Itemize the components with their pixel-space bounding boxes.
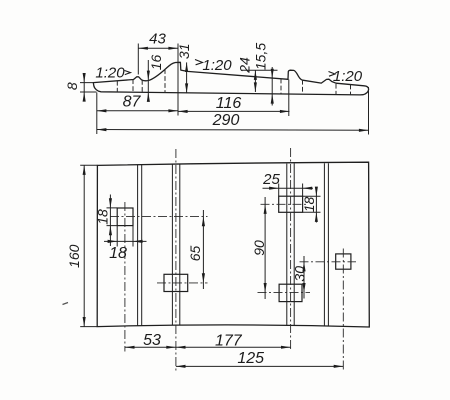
arrowheads: dimension 16 (147, 71, 150, 81)
arrowheads: dimension 90 (264, 204, 267, 214)
svg-text:24: 24 (236, 57, 252, 74)
square hole 1 (18x18, left) (117, 208, 133, 226)
dimension 31: dimension line (186, 62, 188, 93)
svg-text:8: 8 (64, 82, 80, 90)
hidden edges of holes (dashed) in section view (117, 70, 350, 95)
dimension 8: extension lines (80, 83, 97, 92)
arrowheads: dimension 65 (202, 217, 205, 227)
dimension 290: dimension line (97, 129, 369, 132)
arrowheads: dimension 8 (83, 73, 86, 83)
square hole 5 (18x18, right) (336, 254, 351, 269)
svg-text:116: 116 (216, 95, 242, 112)
svg-text:30: 30 (291, 266, 307, 282)
dimension 43: dimension line (138, 47, 178, 49)
dimensions 53 and 177: dimension lines (125, 346, 291, 348)
svg-text:160: 160 (66, 244, 82, 268)
svg-text:1:20: 1:20 (333, 68, 363, 85)
arrowheads: dimension 30 (302, 262, 305, 272)
centerline: hole 3 horizontal (261, 203, 309, 205)
svg-text:290: 290 (212, 112, 240, 129)
dimension 43: extension line (137, 44, 139, 75)
dimension 18 (hole 1 width): extension lines (117, 226, 133, 247)
arrowheads: dimension 25 (269, 187, 279, 190)
plan-view dimension lines (80, 165, 343, 366)
arrowheads: dimension 31 (185, 62, 188, 72)
svg-text:16: 16 (148, 55, 164, 71)
svg-text:1:20: 1:20 (95, 65, 125, 82)
arrowheads: dimension 87 (97, 109, 107, 112)
svg-text:25: 25 (262, 171, 280, 188)
svg-text:53: 53 (143, 332, 161, 349)
svg-text:90: 90 (251, 240, 267, 256)
dimension 25 (hole 3 width): extension lines (279, 184, 303, 197)
square hole 3 (25x18, second rail-seat line top) (279, 196, 303, 212)
plan view of tie plate (97, 162, 369, 327)
arrowheads: dimension 160 (83, 165, 86, 175)
centerline: hole 1 horizontal (110, 216, 208, 218)
plan-view longitudinal rib lines (138, 163, 329, 326)
arrowheads: dimension 125 (176, 365, 186, 368)
centerline: hole 1 vertical (124, 202, 126, 352)
svg-text:43: 43 (149, 31, 166, 48)
svg-text:18: 18 (95, 209, 111, 225)
stray scan mark at left (63, 303, 69, 305)
extension line at right shoulder base (288, 80, 290, 117)
extension line at rail-seat step (shared by 43/87/116) (177, 44, 179, 116)
dimension 160: dimension line (83, 165, 85, 326)
arrowheads: dimension 24 (254, 70, 257, 80)
svg-text:15,5: 15,5 (253, 43, 269, 70)
slope arrows for the three 1:20 marks (125, 60, 336, 77)
plan-view dimension texts (66, 171, 317, 367)
svg-text:177: 177 (215, 333, 243, 350)
dimension 90: dimension line (264, 197, 266, 299)
section view: tie plate profile outline (93, 62, 368, 95)
dimension 125: dimension line (176, 365, 343, 367)
extension line for 24 and 15,5 (242, 69, 278, 71)
arrowheads: dimension 18 hole1 height (109, 198, 112, 208)
arrowheads: dimension 290 (97, 128, 107, 131)
dimension 87: dimension line (97, 110, 178, 112)
svg-text:31: 31 (176, 44, 192, 60)
svg-text:1:20: 1:20 (202, 57, 232, 74)
plan-view centerlines (dash-dot) (110, 148, 356, 371)
svg-text:65: 65 (187, 246, 203, 262)
dimension 65: dimension line (202, 210, 204, 289)
dimension 24: dimension line (254, 70, 256, 92)
arrowheads of plan-view dimensions (83, 165, 344, 368)
arrowheads: dimension 18 hole1 width (108, 240, 118, 243)
centerline: hole 5 vertical (342, 249, 344, 371)
arrowheads: dimension 116 (178, 110, 188, 113)
section-view dimension texts (64, 31, 363, 130)
dimension 16: dimension line (147, 60, 149, 100)
extension line at plate left end (96, 93, 98, 135)
arrowheads of section-view dimensions (83, 47, 369, 132)
dimension 18 (hole 3 height): extension lines (303, 196, 321, 212)
svg-text:18: 18 (301, 197, 317, 213)
square hole 4 (25x18, second rail-seat line bottom) (279, 284, 302, 301)
plan-view square holes (117, 196, 351, 301)
dimension 8: dimension line (83, 73, 85, 102)
centerline: hole 5 horizontal (300, 261, 357, 263)
extension line at plate right end (368, 87, 370, 135)
dimension 18 (hole 1 height): extension lines (107, 208, 118, 226)
svg-text:87: 87 (123, 94, 142, 111)
dimension 30: dimension line (303, 256, 305, 299)
plan-view plate outline rectangle (97, 162, 369, 327)
arrowheads: dimension 15,5 (271, 69, 274, 79)
dimension 15,5: dimension line (271, 67, 273, 106)
svg-text:125: 125 (237, 350, 264, 367)
dimension 116: dimension line (178, 110, 290, 112)
dimension 18 (hole 1 width): dimension line (104, 240, 147, 242)
dimensions & texts for section (80, 44, 369, 135)
dimension 18 (hole 1 height): dimension line (109, 195, 111, 247)
centerline: second bolt column (290, 148, 292, 352)
svg-text:18: 18 (109, 245, 127, 262)
dimension 160: extension lines (80, 165, 97, 326)
arrowheads: dimension 43 (138, 47, 148, 50)
centerline: hole 2 horizontal (157, 282, 208, 284)
arrowheads: dimension 53 (125, 346, 135, 349)
square hole 2 (25x18, first rail-seat line) (164, 274, 188, 291)
centerline: first bolt column (175, 149, 177, 371)
centerline: hole 4 horizontal (258, 292, 311, 294)
arrowheads: dimension 18 hole3 height (315, 187, 318, 197)
dimension 18 (hole 3 height): dimension line (315, 189, 317, 223)
arrowheads: dimension 177 (176, 346, 186, 349)
dimension 25: dimension line (263, 187, 314, 189)
